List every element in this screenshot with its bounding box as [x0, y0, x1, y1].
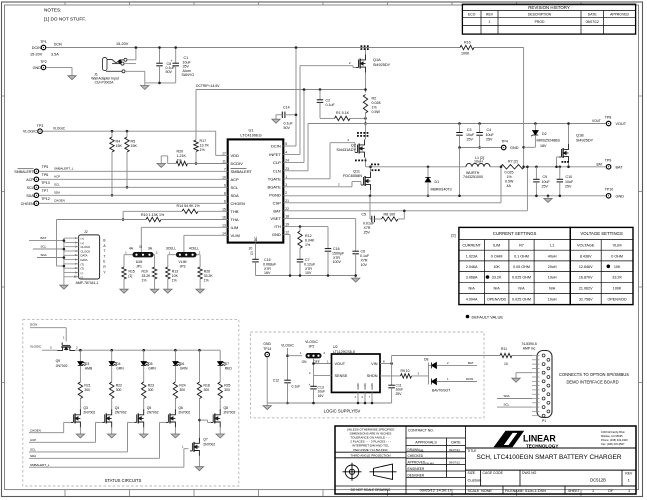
svg-text:1.21K: 1.21K — [177, 154, 187, 158]
svg-text:15K: 15K — [116, 144, 123, 148]
svg-text:BAT: BAT — [273, 208, 281, 213]
svg-text:1%: 1% — [204, 278, 209, 282]
testpoint TP13 SCL — [34, 185, 39, 190]
wire JP2 to U2 VOUT — [313, 358, 315, 375]
svg-text:CAGE CODE: CAGE CODE — [483, 471, 504, 475]
resistor R4 pullup — [111, 130, 114, 133]
wire column 5 to R18 — [198, 349, 201, 352]
LED D4 GRN — [110, 349, 113, 352]
svg-text:C14: C14 — [283, 105, 290, 109]
svg-text:FDC6558N: FDC6558N — [343, 174, 362, 178]
wire PGND rail — [283, 195, 606, 197]
svg-text:LTC4100EG: LTC4100EG — [240, 133, 261, 138]
svg-text:AMP-787441-1: AMP-787441-1 — [76, 281, 99, 285]
LED D6 GRN — [174, 349, 177, 352]
svg-text:512b-1.DSN: 512b-1.DSN — [525, 489, 546, 493]
svg-text:10V: 10V — [305, 271, 312, 275]
svg-text:Q2: Q2 — [351, 143, 356, 147]
svg-text:T: T — [104, 254, 106, 258]
wire LED supply rail — [75, 349, 220, 351]
resistor R24 300 — [173, 382, 177, 399]
svg-text:2N7002: 2N7002 — [147, 411, 159, 415]
svg-text:1%: 1% — [142, 278, 147, 282]
svg-text:GRN: GRN — [180, 367, 188, 371]
svg-text:1500pF: 1500pF — [332, 251, 345, 255]
svg-text:10uH: 10uH — [548, 298, 557, 302]
svg-text:BAT: BAT — [616, 165, 624, 169]
svg-text:GND: GND — [356, 383, 360, 389]
testpoint TP12 CHGEN — [34, 201, 39, 206]
svg-text:JP3: JP3 — [180, 264, 186, 268]
jumper JP3 VLIM — [176, 252, 197, 257]
connector J2 battery — [79, 235, 100, 279]
transistor Q6 2N7002 — [166, 409, 176, 427]
svg-text:X7R: X7R — [361, 258, 368, 262]
wire DCIN rail — [46, 47, 460, 49]
wire TP14 to ground rail — [266, 357, 268, 403]
svg-text:4A: 4A — [507, 184, 512, 188]
svg-text:D2: D2 — [542, 132, 547, 136]
svg-text:N/A: N/A — [549, 286, 556, 290]
svg-text:33.2K: 33.2K — [492, 276, 502, 280]
svg-text:SHEET: SHEET — [568, 489, 581, 493]
testpoint TP4 GND — [501, 145, 506, 150]
svg-text:C3: C3 — [467, 128, 472, 132]
testpoint TP6 ACP — [34, 177, 39, 182]
svg-text:1%: 1% — [507, 175, 513, 179]
resistor R10 THA — [57, 219, 147, 221]
ground Q3 — [76, 432, 84, 438]
svg-text:ITH: ITH — [274, 224, 281, 229]
testpoint TP2 — [41, 65, 46, 70]
svg-text:ON: ON — [302, 360, 307, 364]
svg-text:OPEN/VDD: OPEN/VDD — [607, 298, 627, 302]
svg-text:DC512B: DC512B — [590, 478, 606, 483]
capacitor C7 — [297, 258, 304, 260]
svg-text:0.068uF: 0.068uF — [263, 262, 277, 266]
svg-text:VOLTAGE SETTINGS: VOLTAGE SETTINGS — [580, 231, 622, 236]
svg-text:TP7: TP7 — [42, 189, 49, 193]
svg-text:[1] DO NOT STUFF.: [1] DO NOT STUFF. — [44, 17, 86, 22]
wire ILIM route — [141, 226, 227, 228]
svg-text:DRAWN: DRAWN — [408, 448, 421, 452]
wire SMBALERT — [39, 170, 228, 172]
svg-text:[2]: [2] — [451, 234, 455, 238]
svg-text:C4: C4 — [487, 128, 492, 132]
svg-text:ACP: ACP — [231, 177, 240, 182]
wire VSET route — [283, 218, 355, 220]
svg-text:16.870V: 16.870V — [579, 276, 593, 280]
wire P1 SCL — [497, 406, 532, 408]
svg-text:N/A: N/A — [518, 286, 525, 290]
wire CHGEN — [39, 202, 228, 204]
svg-text:Fax: (408) 434-0507: Fax: (408) 434-0507 — [601, 442, 625, 446]
svg-text:DESCRIPTION: DESCRIPTION — [528, 13, 552, 17]
svg-text:[1]: [1] — [129, 274, 133, 278]
wire U2 SHDN to R9 — [380, 375, 401, 377]
current settings table — [459, 227, 633, 304]
svg-text:Q6: Q6 — [178, 406, 183, 410]
svg-text:2N7002: 2N7002 — [203, 442, 215, 446]
svg-text:MB: MB — [420, 448, 424, 452]
svg-text:VLOGIC: VLOGIC — [53, 126, 66, 130]
wire SCL — [39, 186, 228, 188]
svg-text:0.05 OHM: 0.05 OHM — [513, 265, 530, 269]
svg-text:CHGEN: CHGEN — [231, 201, 246, 206]
capacitor C9 — [535, 166, 538, 169]
svg-text:33.2K: 33.2K — [204, 274, 214, 278]
connector J1 wall adapter jack — [103, 58, 128, 73]
connector P1 dsub — [537, 351, 552, 418]
svg-text:2.046A: 2.046A — [466, 265, 478, 269]
svg-text:0.1uF: 0.1uF — [284, 122, 294, 126]
resistor R17 divider top — [195, 90, 197, 141]
svg-text:Si4431ADY: Si4431ADY — [336, 148, 356, 152]
svg-text:33.2K: 33.2K — [142, 274, 152, 278]
svg-text:CONTRACT NO.: CONTRACT NO. — [408, 429, 434, 433]
svg-text:TP3: TP3 — [37, 124, 44, 128]
svg-text:0.01uF: 0.01uF — [363, 222, 375, 226]
snubber C5 R8 — [369, 195, 372, 198]
svg-text:R8 100: R8 100 — [384, 212, 396, 216]
svg-text:21.062V: 21.062V — [579, 286, 593, 290]
svg-text:Q8: Q8 — [224, 406, 229, 410]
svg-text:0.5W: 0.5W — [505, 179, 514, 183]
svg-text:R21: R21 — [84, 384, 90, 388]
resistor R5 pullup — [126, 130, 129, 133]
capacitor C11 — [391, 364, 393, 386]
wire D2 anode to R16 riser — [524, 146, 536, 148]
svg-text:SCL: SCL — [30, 448, 36, 452]
svg-text:DCIN: DCIN — [30, 323, 37, 327]
svg-text:1%: 1% — [372, 105, 378, 109]
transistor Q2 Si4431ADY — [355, 140, 365, 158]
svg-text:1: 1 — [285, 175, 287, 179]
svg-text:Milpitas, CA 95035: Milpitas, CA 95035 — [601, 434, 623, 438]
svg-text:X7R: X7R — [364, 226, 371, 230]
svg-text:TITLE: TITLE — [467, 449, 477, 453]
svg-text:40uH: 40uH — [548, 254, 557, 258]
jumper JP1 ILIM — [133, 252, 154, 257]
svg-text:BAT: BAT — [468, 361, 474, 365]
svg-text:VLOGIC: VLOGIC — [23, 130, 38, 134]
svg-text:RED: RED — [225, 367, 233, 371]
svg-text:R5: R5 — [131, 140, 136, 144]
svg-text:SCL: SCL — [27, 186, 34, 190]
svg-text:GND: GND — [363, 383, 367, 389]
resistor R16 — [460, 45, 474, 49]
svg-text:SCL: SCL — [504, 403, 510, 407]
svg-text:[1]: [1] — [139, 245, 142, 249]
resistor R13 — [168, 254, 176, 256]
svg-text:CLP: CLP — [273, 160, 281, 165]
svg-text:3.5A: 3.5A — [51, 53, 59, 57]
svg-text:300: 300 — [204, 388, 210, 392]
svg-text:C13: C13 — [318, 385, 324, 389]
svg-text:25V: 25V — [542, 185, 549, 189]
LED D3 AMB — [79, 349, 82, 352]
svg-text:CHECKED: CHECKED — [408, 454, 424, 458]
svg-text:13.7K: 13.7K — [200, 144, 210, 148]
svg-text:ENGINEER: ENGINEER — [408, 467, 425, 471]
svg-text:D4: D4 — [116, 362, 120, 366]
svg-text:LT1129CS8-5: LT1129CS8-5 — [333, 350, 355, 354]
svg-text:GRN: GRN — [116, 367, 124, 371]
testpoint TP9 BAT — [606, 165, 611, 170]
svg-text:C7: C7 — [305, 258, 310, 262]
svg-text:2N7002: 2N7002 — [56, 364, 68, 368]
jumper JP2 on-off — [288, 355, 303, 357]
svg-text:05/07/12: 05/07/12 — [586, 20, 599, 24]
zener D2 MMSZ5248BS — [534, 122, 537, 125]
svg-text:VLOGIC: VLOGIC — [30, 345, 42, 349]
svg-text:VLIM: VLIM — [231, 233, 240, 238]
capacitor C14 — [281, 112, 283, 119]
svg-text:FILENAME:: FILENAME: — [505, 489, 524, 493]
resistor R20 divider bottom — [176, 161, 188, 165]
wire ACP — [39, 178, 228, 180]
svg-text:3CELL: 3CELL — [166, 247, 176, 251]
capacitor C12 — [284, 379, 291, 381]
svg-text:4CELL: 4CELL — [189, 247, 199, 251]
svg-text:DCDIV: DCDIV — [231, 161, 244, 166]
svg-text:R18: R18 — [204, 384, 210, 388]
ground Q4 — [108, 432, 116, 438]
svg-text:DC: DC — [254, 236, 258, 241]
default value legend — [466, 315, 470, 319]
svg-text:Q11: Q11 — [353, 169, 360, 173]
ground Q8 — [216, 432, 224, 438]
wire ITH route — [283, 226, 328, 228]
svg-text:SCH, LTC4100EGN SMART BATTERY: SCH, LTC4100EGN SMART BATTERY CHARGER — [477, 454, 622, 461]
svg-text:0.1uF: 0.1uF — [292, 384, 301, 388]
svg-text:23: 23 — [285, 167, 289, 171]
svg-text:09/05/12 14:30:17: 09/05/12 14:30:17 — [420, 488, 453, 493]
resistor R21 300 — [78, 382, 82, 399]
svg-text:DCTRIP=14.6V: DCTRIP=14.6V — [196, 84, 220, 88]
regulator U2 LT1129CS8-5 — [332, 354, 381, 392]
resistor R9 10 — [401, 374, 412, 378]
svg-text:(-): (-) — [81, 275, 84, 279]
linear technology logo — [494, 431, 525, 448]
resistor R2 input sense — [363, 95, 367, 114]
svg-text:32.758V: 32.758V — [579, 298, 593, 302]
svg-text:ILIM: ILIM — [493, 244, 500, 248]
svg-text:10uH: 10uH — [474, 160, 483, 164]
transistor Q9 2N7002 — [57, 342, 75, 350]
wire THA to J2 thermistor — [56, 220, 58, 267]
svg-text:DESIGNER: DESIGNER — [408, 473, 425, 477]
svg-text:Si4925DY: Si4925DY — [576, 138, 594, 142]
wire CLN VOUT rail — [283, 170, 308, 172]
svg-text:0.025 OHM: 0.025 OHM — [512, 276, 531, 280]
svg-text:25V: 25V — [565, 185, 572, 189]
svg-text:CSP: CSP — [273, 200, 282, 205]
svg-text:Q9: Q9 — [56, 359, 61, 363]
svg-text:TP4: TP4 — [501, 139, 508, 143]
svg-text:AMB: AMB — [85, 367, 93, 371]
svg-text:REVISION HISTORY: REVISION HISTORY — [528, 5, 570, 10]
svg-text:NONE: NONE — [481, 489, 492, 493]
svg-text:100K: 100K — [461, 52, 470, 56]
wire VLIM route — [184, 234, 228, 236]
svg-text:D7: D7 — [225, 362, 229, 366]
svg-text:R15: R15 — [129, 270, 135, 274]
wire P1 ground pin — [516, 372, 532, 374]
svg-text:0.1uF: 0.1uF — [326, 103, 336, 107]
svg-text:10uF: 10uF — [396, 388, 404, 392]
op-amp U1 LTC4100EGN body — [228, 139, 284, 242]
svg-text:7: 7 — [224, 167, 226, 171]
svg-text:CHGEN: CHGEN — [54, 199, 65, 203]
testpoint TP1 — [41, 45, 46, 50]
svg-text:ECO: ECO — [468, 13, 476, 17]
svg-text:3.068A: 3.068A — [466, 276, 478, 280]
transistor Q4 2N7002 — [102, 409, 112, 427]
svg-text:TP2: TP2 — [40, 60, 47, 64]
svg-text:300: 300 — [84, 388, 90, 392]
svg-text:X7R: X7R — [305, 267, 312, 271]
svg-text:GND: GND — [370, 383, 374, 389]
svg-text:CLN: CLN — [273, 168, 281, 173]
svg-text:C11: C11 — [396, 383, 402, 387]
third angle projection symbol — [343, 463, 397, 481]
capacitor C6 vset — [352, 250, 359, 252]
svg-text:20: 20 — [249, 247, 253, 251]
svg-text:2N7002: 2N7002 — [115, 411, 127, 415]
svg-text:1%: 1% — [172, 278, 177, 282]
ground J1 — [141, 83, 149, 89]
diode D8 BAV70 dual — [428, 363, 430, 385]
svg-text:09/07/12: 09/07/12 — [449, 448, 460, 452]
svg-text:THA: THA — [231, 217, 239, 222]
wire BAT to J2 — [29, 240, 64, 242]
svg-text:50V: 50V — [166, 70, 173, 74]
svg-text:2N7002: 2N7002 — [224, 411, 236, 415]
svg-text:0 OHM: 0 OHM — [491, 254, 503, 258]
LED D7 RED — [219, 350, 221, 361]
svg-text:33.2K: 33.2K — [612, 276, 622, 280]
svg-text:13: 13 — [222, 223, 226, 227]
svg-text:CURRENT: CURRENT — [462, 244, 481, 248]
ground Q5 — [140, 432, 148, 438]
svg-text:PGND: PGND — [269, 192, 281, 197]
svg-text:OPEN/VDD: OPEN/VDD — [487, 298, 507, 302]
svg-text:19: 19 — [285, 223, 289, 227]
svg-text:16V: 16V — [264, 271, 271, 275]
svg-text:1.023A: 1.023A — [466, 254, 478, 258]
svg-text:X7R: X7R — [264, 267, 271, 271]
svg-text:0.1uF: 0.1uF — [360, 254, 370, 258]
wire CSP route — [283, 202, 501, 204]
svg-text:SDA: SDA — [54, 191, 60, 195]
ground output caps — [547, 195, 550, 198]
transistor Q3 2N7002 — [71, 409, 81, 427]
svg-text:Custom: Custom — [468, 477, 482, 482]
svg-text:APPROVALS: APPROVALS — [415, 440, 437, 444]
svg-text:R1 5.1K: R1 5.1K — [336, 111, 350, 115]
svg-text:4A: 4A — [129, 247, 134, 251]
wire J2 fan column — [63, 238, 65, 277]
svg-text:CHGEN: CHGEN — [21, 202, 34, 206]
svg-text:25V: 25V — [486, 137, 493, 141]
testpoint TP3 VLOGIC — [38, 129, 43, 134]
svg-text:VSET: VSET — [270, 216, 281, 221]
svg-text:SCL: SCL — [54, 183, 60, 187]
svg-text:TECHNOLOGY: TECHNOLOGY — [526, 444, 558, 449]
svg-text:10uF: 10uF — [466, 133, 475, 137]
svg-text:B: B — [103, 239, 105, 243]
svg-text:10K: 10K — [614, 265, 621, 269]
svg-text:BAV70/SOT: BAV70/SOT — [432, 389, 450, 393]
svg-text:TP1: TP1 — [40, 40, 47, 44]
svg-text:ACP: ACP — [30, 438, 36, 442]
svg-text:GND: GND — [272, 232, 281, 237]
svg-text:VIN: VIN — [371, 362, 378, 366]
ground TP2 — [68, 74, 76, 80]
svg-text:R7: R7 — [519, 244, 524, 248]
svg-text:R4: R4 — [116, 140, 121, 144]
ground R20 — [157, 161, 165, 167]
svg-text:100K: 100K — [613, 286, 622, 290]
ground TP14 — [263, 403, 271, 409]
svg-text:C15: C15 — [264, 258, 271, 262]
svg-text:R13: R13 — [172, 270, 178, 274]
svg-text:TP6: TP6 — [42, 173, 49, 177]
svg-text:2N7002: 2N7002 — [83, 411, 95, 415]
wire VLOGIC column C12 — [287, 348, 289, 380]
svg-text:DATE: DATE — [588, 13, 598, 17]
svg-text:BAT: BAT — [597, 162, 603, 166]
svg-text:L1: L1 — [550, 244, 554, 248]
svg-text:DCIN: DCIN — [32, 46, 42, 50]
svg-text:[2]: [2] — [249, 251, 253, 255]
svg-text:R24: R24 — [179, 384, 185, 388]
svg-text:TP9: TP9 — [605, 158, 612, 162]
svg-text:T: T — [104, 249, 106, 253]
wire VLOGIC rail — [43, 130, 216, 132]
wire VLOGIC to Q9 — [42, 349, 57, 351]
svg-text:10uF: 10uF — [486, 133, 495, 137]
svg-text:300: 300 — [179, 388, 185, 392]
svg-text:3A: 3A — [148, 247, 153, 251]
svg-text:100V: 100V — [333, 260, 342, 264]
svg-text:1%: 1% — [200, 148, 206, 152]
svg-text:8.438V: 8.438V — [580, 254, 592, 258]
svg-text:THIRD ANGLE PROJECTION: THIRD ANGLE PROJECTION — [350, 453, 390, 457]
svg-text:R16: R16 — [464, 40, 471, 44]
svg-text:CUI-PJ002A: CUI-PJ002A — [95, 81, 115, 85]
svg-text:0 OHM: 0 OHM — [611, 254, 623, 258]
capacitor C10 — [559, 166, 562, 169]
capacitor C1 input bulk — [175, 48, 177, 64]
svg-text:1%: 1% — [305, 243, 311, 247]
svg-text:0.12uF: 0.12uF — [304, 262, 316, 266]
wire BAT sense route — [283, 210, 527, 212]
testpoint TP10 GND — [606, 194, 611, 199]
svg-text:ACP: ACP — [26, 178, 34, 182]
svg-text:DATE: DATE — [451, 440, 461, 444]
svg-text:R2: R2 — [372, 97, 377, 101]
svg-text:0.028: 0.028 — [372, 101, 381, 105]
ground J2 — [63, 277, 65, 283]
svg-text:VDD: VDD — [231, 153, 240, 158]
wire R16 riser to BAT rail — [523, 48, 525, 167]
wire SCL to J2 — [33, 248, 64, 250]
transistor Q8 2N7002 — [211, 409, 221, 427]
svg-text:5: 5 — [285, 142, 287, 146]
svg-text:MMSZ5248BS: MMSZ5248BS — [537, 138, 561, 142]
